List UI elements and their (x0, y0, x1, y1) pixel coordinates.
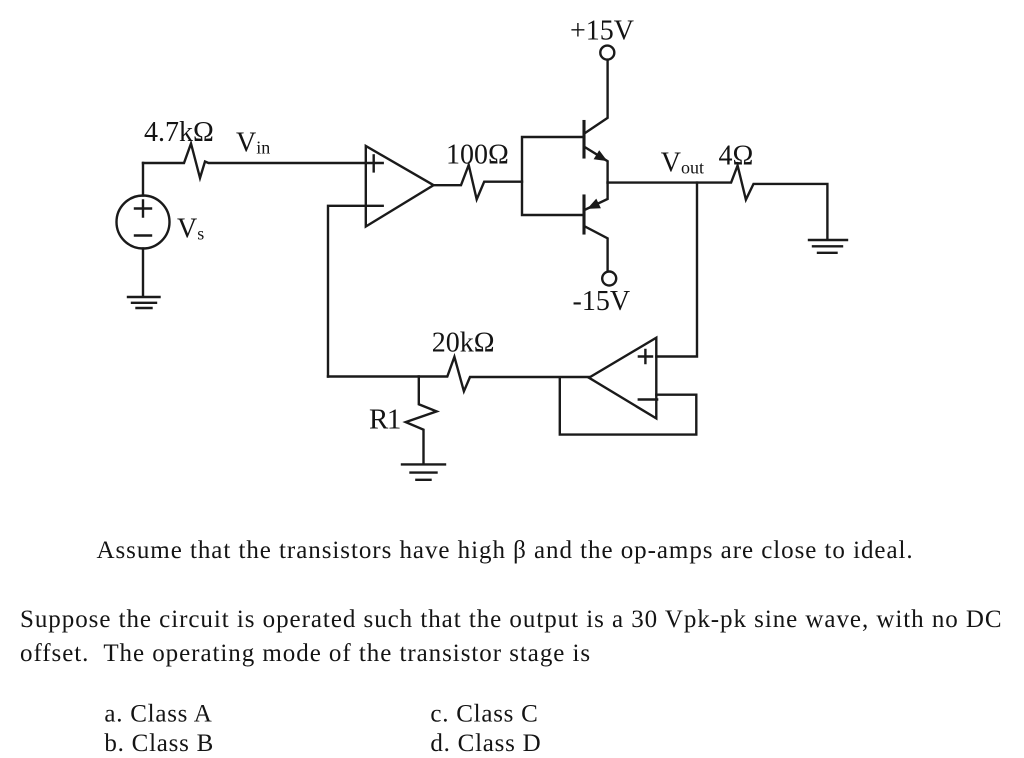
svg-text:b. Class B: b. Class B (104, 730, 214, 757)
svg-text:R1: R1 (369, 404, 400, 436)
svg-text:a. Class A: a. Class A (104, 701, 212, 728)
svg-text:Vin: Vin (236, 128, 270, 159)
svg-text:4Ω: 4Ω (719, 141, 754, 172)
svg-text:Assume that the transistors ha: Assume that the transistors have high β … (97, 537, 914, 564)
svg-text:100Ω: 100Ω (446, 140, 509, 171)
svg-text:offset. The operating mode of: offset. The operating mode of the transi… (20, 640, 591, 667)
svg-text:-15V: -15V (573, 286, 631, 317)
svg-text:Suppose the circuit is operate: Suppose the circuit is operated such tha… (20, 606, 1003, 633)
svg-text:4.7kΩ: 4.7kΩ (144, 117, 214, 148)
svg-text:+15V: +15V (570, 16, 634, 47)
svg-text:c. Class C: c. Class C (430, 701, 538, 728)
svg-text:d. Class D: d. Class D (430, 730, 541, 757)
svg-text:20kΩ: 20kΩ (432, 328, 495, 359)
svg-text:Vs: Vs (177, 214, 204, 245)
svg-text:Vout: Vout (661, 148, 704, 179)
